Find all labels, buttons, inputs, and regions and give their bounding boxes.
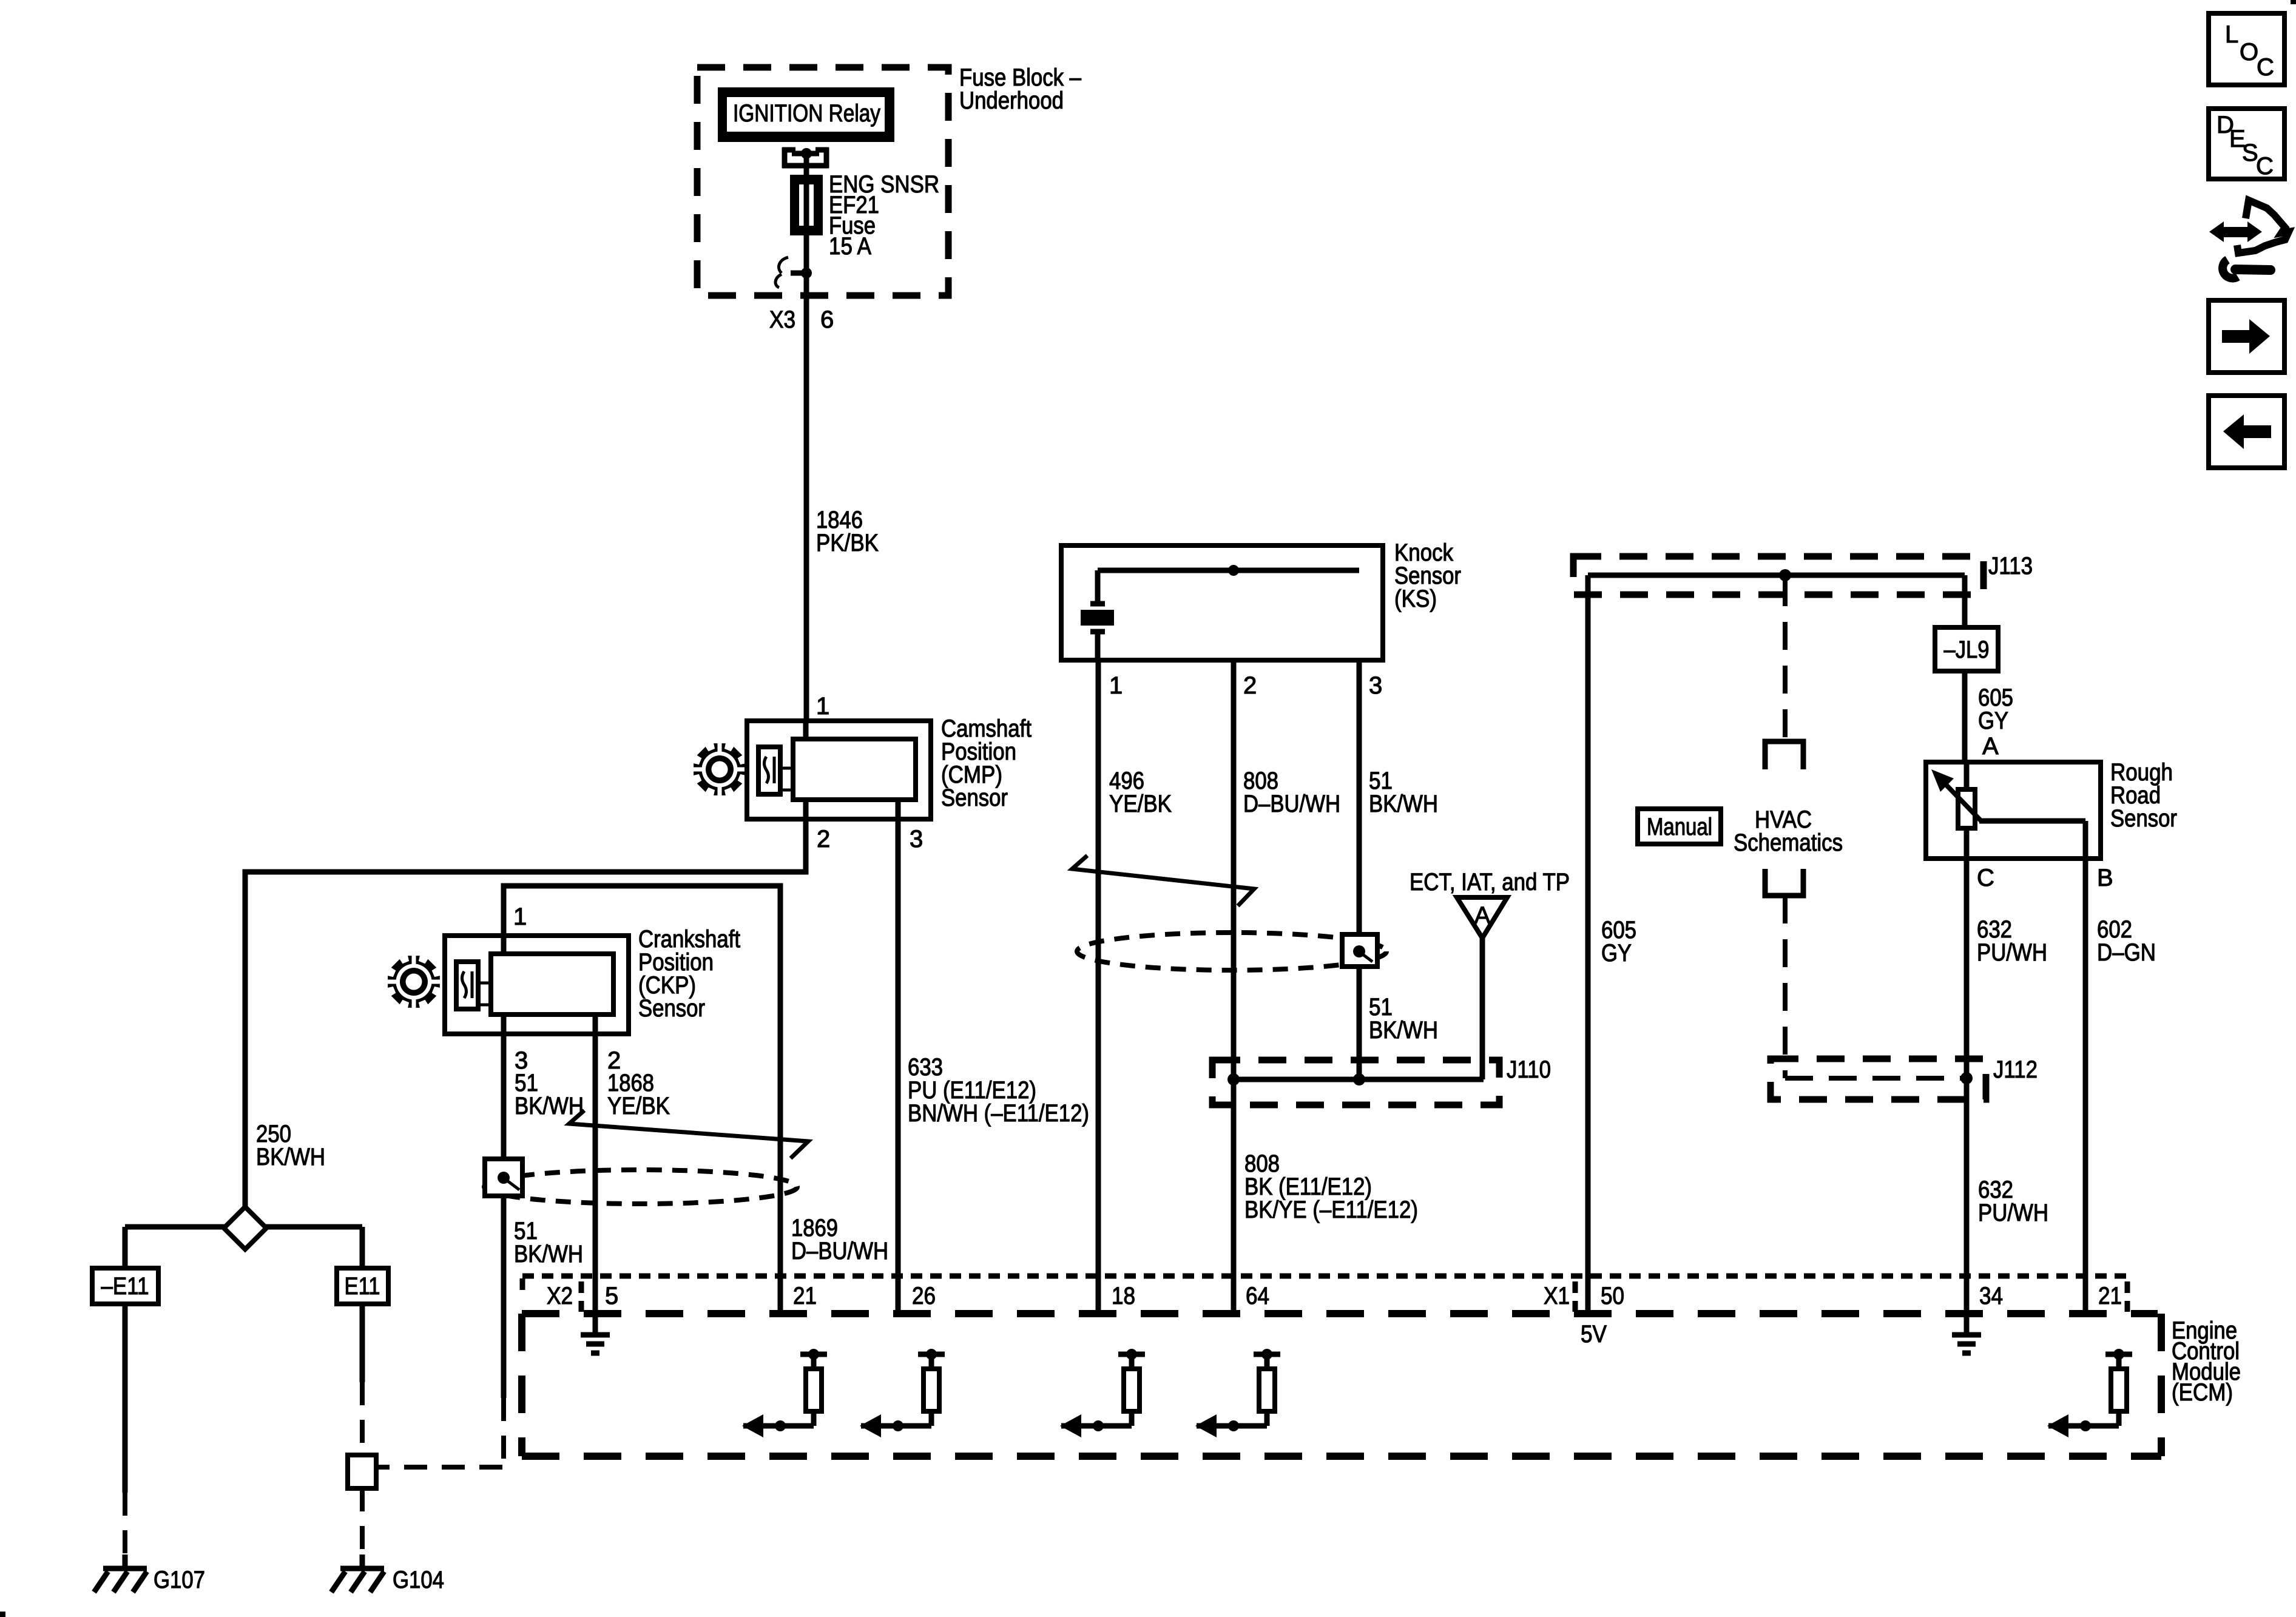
- svg-text:2: 2: [1243, 672, 1257, 699]
- HVAC dashed stub lower: [1783, 896, 1788, 1078]
- ECM input resistor pin 26: [860, 1349, 945, 1437]
- svg-text:–JL9: –JL9: [1944, 636, 1990, 663]
- wire label 605 GY right: [1978, 684, 2013, 734]
- page corner mark bottom left: [0, 1612, 5, 1617]
- J110 bus: [1227, 1073, 1484, 1085]
- wire to E11: [360, 1227, 365, 1268]
- CMP sensor connector: [747, 721, 931, 819]
- KS pin 3 wire 51 BK/WH: [1357, 570, 1362, 1079]
- svg-text:BK/YE (–E11/E12): BK/YE (–E11/E12): [1244, 1197, 1418, 1223]
- label HVAC Schematics: [1734, 806, 1843, 856]
- relay output terminal bracket: [782, 147, 829, 168]
- svg-text:ECT, IAT, and TP: ECT, IAT, and TP: [1410, 869, 1570, 896]
- fuse ENG SNSR EF21 15A: [792, 177, 820, 233]
- shield splice box on KS pin 3 wire: [1342, 934, 1377, 967]
- ground G107: [94, 1555, 147, 1592]
- splice pack J112 dashed box: [1771, 1059, 1986, 1099]
- svg-text:GY: GY: [1601, 940, 1632, 967]
- svg-text:BK/WH: BK/WH: [1369, 1017, 1438, 1044]
- wire 605 GY to ECM X1 50: [1585, 575, 1591, 1314]
- ground G104: [331, 1555, 384, 1592]
- ECM internal ground pin 5: [581, 1314, 610, 1353]
- LOC icon box: [2209, 13, 2284, 85]
- svg-text:C: C: [2256, 153, 2274, 180]
- wire from triangle A to J110: [1480, 938, 1485, 1079]
- svg-text:5: 5: [605, 1283, 618, 1309]
- wire label 51 BK/WH KS: [1369, 768, 1438, 817]
- HVAC upper bracket: [1765, 741, 1803, 769]
- svg-text:Sensor: Sensor: [638, 995, 705, 1022]
- svg-text:PU/WH: PU/WH: [1978, 1200, 2048, 1226]
- svg-text:X2: X2: [547, 1283, 573, 1309]
- wire label 632 PU/WH: [1977, 916, 2047, 966]
- CMP pin 3 wire 633 to ECM pin 26: [896, 800, 901, 1314]
- CMP pin 2 wire to ground splice: [245, 800, 806, 1210]
- KS pin labels 1 2 3: [1109, 672, 1382, 699]
- dashed link 51 BK/WH to ground box: [377, 1398, 504, 1467]
- CKP internal pin 1 wire: [501, 936, 507, 954]
- Manual box: [1638, 809, 1721, 844]
- label Engine Control Module (ECM): [2172, 1317, 2241, 1406]
- svg-text:Sensor: Sensor: [2110, 805, 2177, 832]
- svg-text:Sensor: Sensor: [941, 785, 1008, 811]
- svg-text:PK/BK: PK/BK: [816, 530, 879, 556]
- wire 602 D-GN B to ECM X1 21: [2083, 821, 2088, 1314]
- wire label 51 BK/WH lower KS: [1369, 994, 1438, 1044]
- splice pack J113 dashed box: [1573, 556, 1984, 595]
- svg-text:–E11: –E11: [101, 1273, 149, 1300]
- fuse block underhood dashed box: [697, 67, 948, 295]
- svg-text:Manual: Manual: [1647, 814, 1712, 840]
- CMP internal pin 1 wire: [803, 721, 809, 739]
- KS pin 2 wire 808 D-BU/WH to ECM 64: [1231, 570, 1237, 1314]
- camshaft position sensor gear icon: [692, 741, 748, 797]
- svg-text:B: B: [2097, 865, 2113, 891]
- J112 dashed bus: [1785, 1072, 1973, 1084]
- svg-text:18: 18: [1112, 1283, 1135, 1309]
- previous page arrow box: [2209, 396, 2284, 468]
- svg-text:G107: G107: [154, 1567, 205, 1593]
- svg-text:G104: G104: [393, 1567, 444, 1593]
- fuse label ENG SNSR EF21 Fuse 15 A: [829, 171, 939, 260]
- triangle A ECT IAT TP: [1457, 897, 1507, 938]
- wire 632 PU/WH C to ECM X1 34: [1964, 859, 1970, 1314]
- KS pin 1 wire 496 YE/BK to ECM 18: [1096, 649, 1101, 1314]
- connector E11 box: [337, 1268, 388, 1304]
- wire label 808 BK (E11/E12) BK/YE (-E11/E12): [1244, 1150, 1418, 1223]
- svg-text:D–BU/WH: D–BU/WH: [791, 1238, 888, 1264]
- svg-text:Schematics: Schematics: [1734, 829, 1843, 856]
- knock sensor box: [1061, 545, 1383, 660]
- IGNITION Relay box: [718, 87, 894, 142]
- ground distribution box at E11: [348, 1455, 376, 1488]
- label Fuse Block - Underhood: [959, 64, 1082, 114]
- connector -JL9 box: [1935, 627, 1998, 671]
- HVAC dashed stub upper: [1783, 578, 1788, 741]
- DESC icon box: [2209, 109, 2284, 180]
- svg-text:A: A: [1982, 733, 1999, 760]
- svg-text:L: L: [2225, 21, 2238, 48]
- ECM input resistor pin 64: [1195, 1349, 1280, 1437]
- label Camshaft Position (CMP) Sensor: [941, 715, 1032, 811]
- svg-text:YE/BK: YE/BK: [1109, 791, 1172, 817]
- svg-text:BK/WH: BK/WH: [1369, 791, 1438, 817]
- svg-text:J112: J112: [1993, 1056, 2038, 1083]
- circuit breaker hook at fuse output: [775, 257, 812, 288]
- svg-text:YE/BK: YE/BK: [607, 1093, 670, 1119]
- svg-text:C: C: [2257, 54, 2274, 81]
- svg-text:(ECM): (ECM): [2172, 1379, 2233, 1406]
- wire to -E11: [123, 1227, 128, 1268]
- twisted pair ellipse KS: [1077, 933, 1386, 970]
- wire label 605 GY left: [1601, 917, 1636, 967]
- svg-text:BK/WH: BK/WH: [256, 1144, 325, 1170]
- label Rough Road Sensor: [2110, 759, 2177, 832]
- wire label 51 BK/WH lower: [514, 1218, 583, 1268]
- engine control module dashed box: [522, 1314, 2161, 1456]
- svg-text:50: 50: [1601, 1283, 1624, 1309]
- svg-text:BK/WH: BK/WH: [514, 1241, 583, 1268]
- twisted pair arrow CKP: [569, 1110, 808, 1158]
- wire label 250 BK/WH: [256, 1121, 325, 1170]
- svg-text:1: 1: [1109, 672, 1123, 699]
- svg-text:BK/WH: BK/WH: [515, 1093, 584, 1119]
- ECM input resistor pin 21: [742, 1349, 827, 1437]
- svg-text:5V: 5V: [1581, 1321, 1607, 1348]
- wire label 602 D-GN: [2097, 916, 2156, 966]
- CKP pin 3 wire 51 BK/WH: [501, 1014, 507, 1398]
- svg-text:PU/WH: PU/WH: [1977, 939, 2047, 966]
- svg-text:26: 26: [912, 1283, 936, 1309]
- wire label 808 D-BU/WH: [1243, 768, 1340, 817]
- svg-text:O: O: [2240, 39, 2258, 66]
- J113 bus: [1588, 569, 1965, 581]
- svg-text:C: C: [1977, 865, 1994, 891]
- svg-text:E11: E11: [345, 1273, 380, 1300]
- ECM connector face dotted line: [522, 1276, 2130, 1312]
- wire label 633 PU (E11/E12) BN/WH (-E11/E12): [908, 1054, 1089, 1127]
- rough road sensor box: [1926, 762, 2101, 861]
- twisted pair ellipse CKP: [484, 1170, 797, 1204]
- wire 605 GY to -JL9: [1962, 575, 1968, 627]
- svg-text:X3: X3: [769, 306, 795, 333]
- label Crankshaft Position (CKP) Sensor: [638, 926, 740, 1022]
- wire 1846 PK/BK from ignition relay to CMP pin 1: [804, 154, 809, 723]
- wire -E11 to G107: [123, 1304, 128, 1559]
- splice diamond: [125, 1207, 362, 1249]
- crankshaft position sensor gear icon: [386, 954, 442, 1010]
- page corner mark top right: [2291, 0, 2296, 4]
- svg-text:34: 34: [1979, 1283, 2003, 1309]
- splice pack J110 dashed box: [1212, 1060, 1499, 1105]
- CKP pin 1 wire 1869 D-BU/WH to ECM pin 21: [504, 886, 780, 1314]
- svg-text:IGNITION Relay: IGNITION Relay: [733, 100, 880, 127]
- label Knock Sensor (KS): [1394, 539, 1461, 612]
- ECM internal ground pin 34: [1952, 1314, 1981, 1353]
- svg-text:2: 2: [817, 826, 830, 852]
- ECM input resistor pin 21 X1: [2047, 1349, 2132, 1437]
- ECM input resistor pin 18: [1060, 1349, 1145, 1437]
- svg-text:GY: GY: [1978, 707, 2008, 734]
- wire label 632 PU/WH lower: [1978, 1176, 2048, 1226]
- svg-text:64: 64: [1246, 1283, 1269, 1309]
- wire label 496 YE/BK: [1109, 768, 1172, 817]
- svg-text:BN/WH (–E11/E12): BN/WH (–E11/E12): [908, 1100, 1089, 1127]
- connector label X3 | 6: [769, 306, 834, 333]
- svg-text:6: 6: [820, 306, 834, 333]
- next page arrow box: [2209, 300, 2284, 373]
- svg-text:3: 3: [910, 826, 923, 852]
- wire label 1846 PK/BK: [816, 507, 879, 556]
- svg-text:D–BU/WH: D–BU/WH: [1243, 791, 1340, 817]
- svg-text:A: A: [1474, 902, 1491, 929]
- shield splice box on CKP pin 3 wire: [485, 1159, 522, 1196]
- CKP sensor connector: [445, 936, 629, 1034]
- hand with double arrow and wrench icon: [2209, 200, 2289, 278]
- wire label 51 BK/WH: [515, 1070, 584, 1119]
- svg-text:D–GN: D–GN: [2097, 939, 2156, 966]
- svg-text:21: 21: [793, 1283, 817, 1309]
- svg-text:1: 1: [816, 693, 829, 720]
- twisted pair arrow KS: [1072, 856, 1254, 906]
- wire E11 to G104: [360, 1304, 365, 1559]
- connector -E11 box: [92, 1268, 158, 1304]
- svg-text:J113: J113: [1988, 553, 2033, 579]
- wire label 1869 D-BU/WH: [791, 1215, 888, 1264]
- CKP pin 2 wire 1868 YE/BK to ECM pin 5: [593, 1014, 598, 1314]
- svg-text:Underhood: Underhood: [959, 87, 1064, 114]
- svg-text:(KS): (KS): [1394, 586, 1437, 612]
- wire -JL9 to rough road sensor pin A: [1962, 671, 1968, 765]
- svg-text:3: 3: [1369, 672, 1382, 699]
- svg-text:15 A: 15 A: [829, 233, 871, 260]
- svg-text:21: 21: [2098, 1283, 2122, 1309]
- svg-text:1: 1: [513, 903, 527, 930]
- svg-text:X1: X1: [1544, 1283, 1570, 1309]
- svg-text:J110: J110: [1507, 1056, 1551, 1083]
- HVAC lower bracket: [1765, 869, 1803, 896]
- wire label 1868 YE/BK: [607, 1070, 670, 1119]
